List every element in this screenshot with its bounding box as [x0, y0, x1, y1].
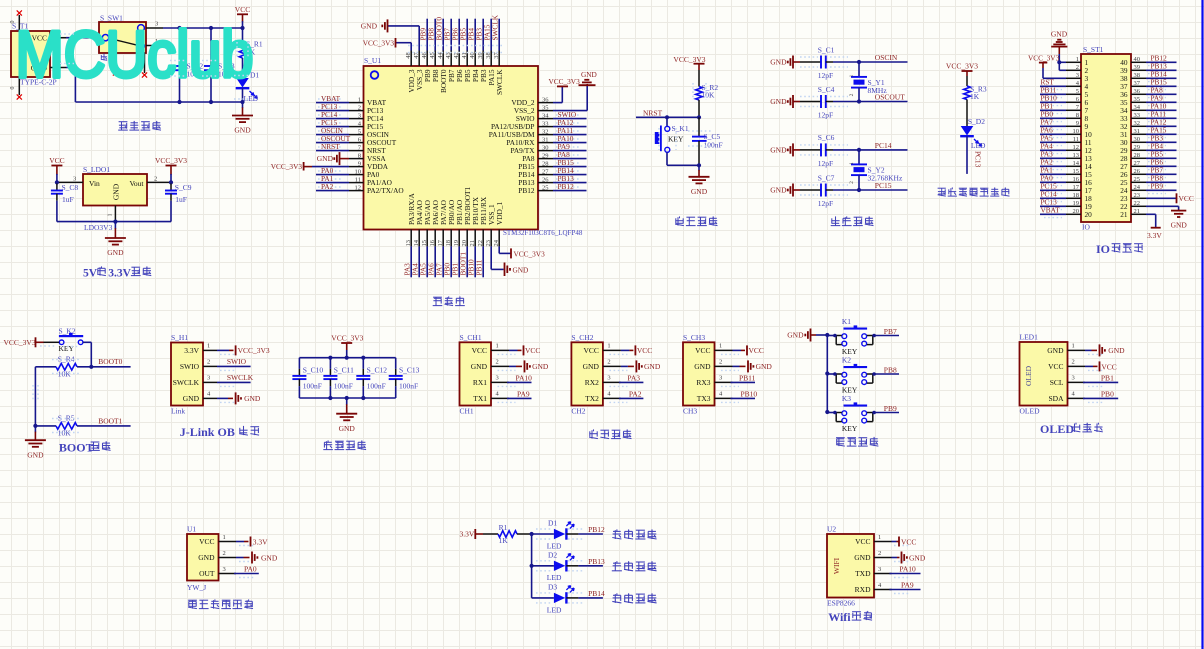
power flag VCC: [51, 165, 62, 167]
svg-text:SWIO: SWIO: [227, 357, 247, 366]
svg-text:VCC_3V3: VCC_3V3: [271, 162, 303, 171]
U1 pin 28 PB15: [538, 166, 553, 168]
svg-text:8MHz: 8MHz: [868, 86, 888, 95]
ground S_C4: [792, 95, 794, 108]
svg-text:8: 8: [358, 152, 361, 159]
svg-text:VCC: VCC: [901, 537, 916, 546]
svg-text:40: 40: [469, 52, 476, 59]
svg-text:RXD: RXD: [855, 585, 871, 594]
U1 pin 3 PC14: [349, 118, 364, 120]
top rail wire: [163, 27, 243, 29]
U1 pin 45 PB8: [434, 51, 436, 67]
ST1 pin 30: [1131, 141, 1146, 143]
svg-text:CH3: CH3: [683, 406, 697, 415]
svg-text:RX2: RX2: [585, 378, 599, 387]
svg-text:GND: GND: [513, 265, 529, 274]
svg-text:VCC: VCC: [525, 346, 540, 355]
svg-text:GND: GND: [1047, 346, 1064, 355]
header S_CH1: [460, 342, 492, 405]
svg-text:26: 26: [1134, 168, 1141, 175]
svg-text:S_U1: S_U1: [364, 56, 381, 65]
svg-text:PB14: PB14: [588, 589, 605, 598]
U1 pin 14 PA4/AO: [418, 230, 420, 247]
svg-text:GND: GND: [471, 362, 488, 371]
svg-text:40: 40: [1134, 56, 1141, 63]
wire node PC15: [833, 189, 908, 191]
svg-text:18: 18: [445, 240, 452, 247]
wire K1 to rail: [827, 335, 836, 337]
svg-text:VCC_3V3: VCC_3V3: [363, 38, 395, 47]
U1 pin 43 PB7: [450, 51, 452, 67]
ST1 pin 27: [1131, 165, 1146, 167]
svg-text:GND: GND: [339, 424, 356, 433]
svg-text:3: 3: [207, 375, 210, 382]
svg-text:43: 43: [445, 52, 452, 59]
CH3 pin 3 RX3: [715, 381, 733, 383]
title 滤波电路: [327, 440, 329, 442]
title 液位检测模块: [188, 599, 197, 601]
U1 pin 4 PC15: [349, 126, 364, 128]
svg-text:RX3: RX3: [696, 378, 710, 387]
svg-text:24: 24: [493, 239, 500, 246]
svg-text:39: 39: [1134, 64, 1141, 71]
svg-text:VBAT: VBAT: [1041, 206, 1061, 215]
ST1 pin 3: [1066, 77, 1081, 79]
svg-text:23: 23: [1134, 192, 1141, 199]
ST1 pin 39: [1131, 69, 1146, 71]
LDO pin 3: [57, 181, 83, 183]
svg-text:1: 1: [108, 214, 114, 217]
svg-text:BOOT1: BOOT1: [98, 416, 122, 425]
svg-text:U1: U1: [187, 525, 196, 534]
LDO pin 2: [147, 181, 171, 183]
svg-text:1: 1: [849, 162, 855, 165]
svg-text:1: 1: [849, 74, 855, 77]
resistor S_R1 1K: [242, 28, 244, 43]
title 串口电路: [593, 429, 595, 431]
display LED1 OLED: [1020, 342, 1068, 406]
sheet border: [1201, 0, 1203, 649]
ST1 pin 32: [1131, 125, 1146, 127]
svg-text:CH2: CH2: [571, 406, 585, 415]
title 晶振电路: [835, 216, 837, 218]
svg-text:1: 1: [1072, 343, 1075, 350]
svg-text:42: 42: [453, 52, 460, 59]
svg-text:33: 33: [542, 120, 549, 127]
svg-text:1: 1: [719, 343, 722, 350]
svg-text:2: 2: [358, 104, 361, 111]
ST1 pin 33: [1131, 117, 1146, 119]
svg-text:1: 1: [207, 343, 210, 350]
title 复位电路: [679, 216, 681, 218]
CH2 pin 3 RX2: [603, 381, 621, 383]
connector S_ST1 IO: [1081, 54, 1131, 222]
svg-text:GND: GND: [787, 331, 804, 340]
U1 pin 42 PB6: [458, 51, 460, 67]
capacitor S_C13 100nF: [395, 358, 397, 369]
svg-text:GND: GND: [581, 70, 597, 79]
svg-text:KEY: KEY: [59, 344, 75, 353]
svg-text:1uF: 1uF: [175, 195, 187, 204]
ST1 pin 12: [1066, 149, 1081, 151]
ST1 pin 37: [1131, 85, 1146, 87]
CH1 pin3 PA10 wire: [507, 381, 532, 383]
U1 pin 41 PB5: [466, 51, 468, 67]
U1 pin 17 PA7/AO: [442, 230, 444, 247]
title 按键电路: [836, 437, 845, 439]
ST1 pin21 3.3V power: [1146, 213, 1156, 215]
selection dot marks: [658, 128, 660, 150]
svg-text:25: 25: [542, 184, 549, 191]
key rail: [826, 335, 828, 412]
svg-text:S_C12: S_C12: [367, 366, 388, 375]
LED1 pin4 PB0 wire: [1083, 397, 1118, 399]
svg-text:S_CH2: S_CH2: [571, 333, 593, 342]
ST1 pin 10: [1066, 133, 1081, 135]
ST1 pin 17: [1066, 189, 1081, 191]
svg-text:17: 17: [1073, 184, 1080, 191]
svg-text:3.3V: 3.3V: [184, 346, 199, 355]
ST1 pin 19: [1066, 205, 1081, 207]
wire D1 to PB12: [566, 533, 578, 535]
connector S_T1 TYPE-C-2P: [11, 31, 50, 77]
svg-text:3.3V: 3.3V: [108, 268, 131, 280]
U2 pin4 PA9 wire: [890, 589, 921, 591]
svg-text:20: 20: [461, 240, 468, 247]
svg-text:S_C6: S_C6: [818, 133, 835, 142]
svg-text:CH1: CH1: [460, 406, 474, 415]
capacitor S_C3 104: [210, 28, 212, 59]
junction: [177, 26, 181, 30]
resistor S_R3 1K: [966, 76, 968, 86]
svg-text:PB1: PB1: [1101, 374, 1114, 383]
svg-text:2: 2: [719, 359, 722, 366]
svg-text:1K: 1K: [970, 92, 980, 101]
svg-text:GND: GND: [112, 183, 121, 200]
svg-text:28: 28: [542, 160, 549, 167]
ST1 pin 4: [1066, 85, 1081, 87]
svg-text:GND: GND: [244, 394, 261, 403]
svg-text:12pF: 12pF: [818, 111, 833, 120]
LED1 pin1 ground: [1085, 349, 1092, 351]
svg-text:Link: Link: [171, 407, 185, 416]
U1 pin 9 VDDA: [349, 166, 364, 168]
svg-text:PA10: PA10: [899, 565, 916, 574]
capacitor S_C2 104: [179, 28, 181, 59]
svg-text:S_K1: S_K1: [672, 124, 689, 133]
svg-text:K3: K3: [842, 394, 851, 403]
svg-text:D3: D3: [548, 583, 557, 592]
ST1 pin 22: [1131, 205, 1146, 207]
CH3 pin4 PB10 wire: [731, 397, 756, 399]
module U1 YW_J: [187, 534, 219, 581]
U1 pin 20 PB2/BOOT1: [466, 230, 468, 247]
CH2 pin 2 GND: [603, 365, 621, 367]
svg-text:3: 3: [1072, 375, 1075, 382]
U1 pin8 ground: [340, 158, 350, 160]
bottom rail wire: [75, 101, 242, 103]
svg-text:3.3V: 3.3V: [253, 537, 268, 546]
U1 pin 2 PC13: [349, 110, 364, 112]
svg-text:GND: GND: [261, 553, 278, 562]
power flag VCC_3V3: [166, 165, 177, 167]
svg-text:LED: LED: [547, 605, 562, 614]
LED1 pin 4 SDA: [1068, 397, 1086, 399]
svg-text:S_C10: S_C10: [303, 366, 324, 375]
svg-text:3: 3: [878, 566, 881, 573]
resistor S_R2 10K: [698, 70, 700, 87]
U1 pin 27 PB14: [538, 174, 553, 176]
U1 pin 15 PA5/AO: [426, 230, 428, 247]
SW1 pin 1: [146, 45, 163, 47]
CH3 pin 4 TX3: [715, 397, 733, 399]
svg-text:ESP8266: ESP8266: [827, 598, 855, 607]
svg-text:SWIO: SWIO: [180, 362, 200, 371]
svg-text:GND: GND: [583, 362, 600, 371]
svg-text:VCC: VCC: [1048, 362, 1063, 371]
svg-text:J-Link OB: J-Link OB: [180, 425, 235, 439]
ST1 pin 14: [1066, 165, 1081, 167]
svg-text:19: 19: [453, 240, 460, 247]
U1 pin 6 OSCOUT: [349, 142, 364, 144]
svg-text:21: 21: [1134, 208, 1141, 215]
svg-text:RX1: RX1: [473, 378, 487, 387]
ground: [810, 329, 812, 342]
ST1 pin 38: [1131, 77, 1146, 79]
svg-text:37: 37: [1134, 80, 1141, 87]
svg-text:35: 35: [542, 104, 549, 111]
wire K1 to PB7: [873, 335, 899, 337]
U1 pin 8 VSSA: [349, 158, 364, 160]
wire rail to D1: [532, 533, 554, 535]
CH1 pin2 ground: [509, 365, 516, 367]
svg-text:PA0: PA0: [244, 565, 257, 574]
CH3 pin1 VCC power: [733, 349, 742, 351]
U1 pin 12 PA2/TX/AO: [349, 190, 364, 192]
svg-text:3: 3: [358, 112, 361, 119]
U1 pin 5 OSCIN: [349, 134, 364, 136]
CH3 pin3 PB11 wire: [731, 381, 756, 383]
svg-text:17: 17: [437, 239, 444, 246]
svg-text:S_D2: S_D2: [968, 117, 985, 126]
svg-text:PB8: PB8: [884, 365, 897, 374]
svg-text:VCC: VCC: [472, 346, 487, 355]
resistor S_R4 10K: [35, 366, 56, 368]
U1 pin 44 BOOT0: [442, 51, 444, 67]
svg-text:1: 1: [496, 343, 499, 350]
svg-text:1: 1: [878, 534, 881, 541]
ST1 pin22 ground: [1146, 205, 1179, 207]
power flag VCC: [237, 13, 248, 15]
resistor S_R5 10K: [35, 425, 56, 427]
power flag VCC_3V3: [962, 70, 973, 72]
svg-text:PB12: PB12: [588, 525, 605, 534]
svg-text:BOOT: BOOT: [59, 440, 94, 454]
ST1 pin 18: [1066, 197, 1081, 199]
U1 pin 11 PA1/AO: [349, 182, 364, 184]
svg-text:LED: LED: [244, 94, 259, 103]
ground: [114, 222, 116, 229]
svg-text:2: 2: [1072, 359, 1075, 366]
svg-text:2: 2: [849, 181, 855, 184]
svg-text:5V: 5V: [83, 268, 98, 280]
ST1 pin 6: [1066, 101, 1081, 103]
H1 pin2 SWIO wire: [217, 365, 251, 367]
U1 pin 36 VDD_2: [538, 102, 553, 104]
svg-text:SWCLK: SWCLK: [491, 14, 500, 40]
svg-text:2: 2: [223, 550, 226, 557]
wire T1 pin2 to bottom rail: [66, 67, 75, 69]
ST1 pin 35: [1131, 101, 1146, 103]
svg-text:PA2: PA2: [629, 390, 642, 399]
module pin3 PA0 wire: [234, 573, 259, 575]
U1 pin 16 PA6/AO: [434, 230, 436, 247]
SW1 pin 3: [146, 27, 163, 29]
svg-text:VCC_3V3: VCC_3V3: [238, 346, 270, 355]
svg-text:32: 32: [542, 128, 549, 135]
capacitor S_C1 12pF: [800, 61, 821, 63]
svg-text:OLED: OLED: [1020, 406, 1041, 415]
svg-text:GND: GND: [770, 58, 787, 67]
ground: [34, 426, 36, 432]
CH1 pin 1 VCC: [491, 349, 509, 351]
ST1 pin 9: [1066, 125, 1081, 127]
svg-text:31: 31: [1134, 128, 1141, 135]
svg-text:PA9: PA9: [901, 581, 914, 590]
CH1 pin1 VCC power: [509, 349, 518, 351]
svg-text:2: 2: [607, 359, 610, 366]
svg-text:25: 25: [1134, 176, 1141, 183]
svg-text:GND: GND: [770, 146, 787, 155]
svg-text:GND: GND: [317, 154, 334, 163]
svg-text:34: 34: [1134, 104, 1141, 111]
wire K3 to rail: [827, 412, 836, 414]
svg-text:GND: GND: [1108, 346, 1125, 355]
U1 pin9 VCC_3V3 power: [303, 162, 305, 171]
U1 pin 18 PB0/AO: [450, 230, 452, 247]
svg-text:GND: GND: [644, 362, 661, 371]
svg-text:VCC_3V3: VCC_3V3: [1028, 53, 1060, 62]
svg-text:TX2: TX2: [585, 394, 599, 403]
svg-text:D2: D2: [548, 551, 557, 560]
U1 module pin 2 GND: [219, 557, 237, 559]
svg-text:S_CH3: S_CH3: [683, 333, 705, 342]
svg-text:VCC_3V3: VCC_3V3: [946, 62, 978, 71]
ST1 pin 8: [1066, 117, 1081, 119]
T1 pin 1 VCC: [50, 37, 66, 39]
svg-text:SWCLK: SWCLK: [173, 378, 200, 387]
svg-text:TX1: TX1: [473, 394, 487, 403]
svg-text:LED: LED: [547, 573, 562, 582]
U2 pin 1 VCC: [874, 541, 892, 543]
ST1 pin 29: [1131, 149, 1146, 151]
svg-text:3: 3: [496, 375, 499, 382]
svg-text:1: 1: [358, 96, 361, 103]
ST1 pin 16: [1066, 181, 1081, 183]
U1 pin 23 VSS_1: [490, 230, 492, 247]
capacitor S_C7 12pF: [800, 189, 821, 191]
capacitor S_C11 100nF: [329, 358, 331, 369]
svg-text:GND: GND: [694, 362, 711, 371]
svg-text:GND: GND: [691, 187, 708, 196]
svg-text:S_C4: S_C4: [818, 85, 835, 94]
svg-text:16: 16: [429, 239, 436, 246]
svg-text:S_H1: S_H1: [171, 333, 188, 342]
svg-text:3: 3: [1076, 72, 1079, 79]
wire K2 to rail: [827, 373, 836, 375]
U1 pin 33 PA12/USB/DP: [538, 126, 553, 128]
wire D3 to PB14: [566, 597, 578, 599]
svg-text:35: 35: [1134, 96, 1141, 103]
svg-text:VCC: VCC: [695, 346, 710, 355]
crystal S_Y2 32.768KHz: [858, 150, 860, 165]
svg-text:VCC_3V3: VCC_3V3: [4, 338, 36, 347]
LED1 pin 3 SCL: [1068, 381, 1086, 383]
CH3 pin 2 GND: [715, 365, 733, 367]
svg-text:S_LDO1: S_LDO1: [83, 165, 110, 174]
svg-text:Vin: Vin: [89, 179, 100, 188]
svg-text:41: 41: [461, 52, 468, 59]
svg-text:PB9: PB9: [884, 404, 897, 413]
U2 pin1 VCC power: [892, 541, 897, 543]
svg-text:20: 20: [1073, 208, 1080, 215]
svg-text:LED: LED: [971, 141, 986, 150]
ground: [242, 102, 244, 108]
key S_K1: [666, 117, 668, 126]
svg-text:GND: GND: [909, 553, 926, 562]
svg-text:10: 10: [1073, 128, 1080, 135]
svg-text:VCC: VCC: [749, 346, 764, 355]
svg-text:PA9: PA9: [517, 390, 530, 399]
ST1 pin 34: [1131, 109, 1146, 111]
svg-text:29: 29: [542, 152, 549, 159]
U1 pin 25 PB12: [538, 190, 553, 192]
LED1 pin 2 VCC: [1068, 365, 1086, 367]
title 电源电路: [119, 121, 128, 123]
ST1 pin 40: [1131, 61, 1146, 63]
svg-text:48: 48: [405, 52, 412, 59]
svg-text:OSCIN: OSCIN: [875, 53, 898, 62]
svg-text:PA2: PA2: [321, 182, 334, 191]
CH1 pin 4 TX1: [491, 397, 509, 399]
svg-text:2: 2: [207, 359, 210, 366]
led rail: [531, 534, 533, 598]
LDO ground pin: [114, 206, 116, 222]
svg-text:19: 19: [1073, 200, 1080, 207]
svg-text:KEY: KEY: [842, 424, 858, 433]
CH2 pin3 PA3 wire: [619, 381, 644, 383]
svg-text:VCC: VCC: [235, 5, 250, 14]
svg-text:2: 2: [154, 176, 157, 183]
T1 top no-connect pin: [18, 15, 20, 31]
svg-text:PB12: PB12: [518, 186, 535, 195]
svg-text:11: 11: [355, 176, 361, 183]
svg-text:1: 1: [1076, 56, 1079, 63]
svg-text:15: 15: [1073, 168, 1080, 175]
U2 pin3 PA10 wire: [890, 573, 921, 575]
svg-text:3: 3: [719, 375, 722, 382]
svg-text:12: 12: [355, 184, 362, 191]
LED1 pin3 PB1 wire: [1083, 381, 1118, 383]
ST1 pin 5: [1066, 93, 1081, 95]
U2 pin 2 GND: [874, 557, 892, 559]
svg-text:YW_J: YW_J: [187, 583, 206, 592]
svg-text:SWCLK: SWCLK: [495, 69, 504, 95]
U1 pin 10 PA0: [349, 174, 364, 176]
U1 module pin 1 VCC: [219, 541, 237, 543]
svg-text:27: 27: [1134, 160, 1141, 167]
svg-text:GND: GND: [107, 248, 124, 257]
